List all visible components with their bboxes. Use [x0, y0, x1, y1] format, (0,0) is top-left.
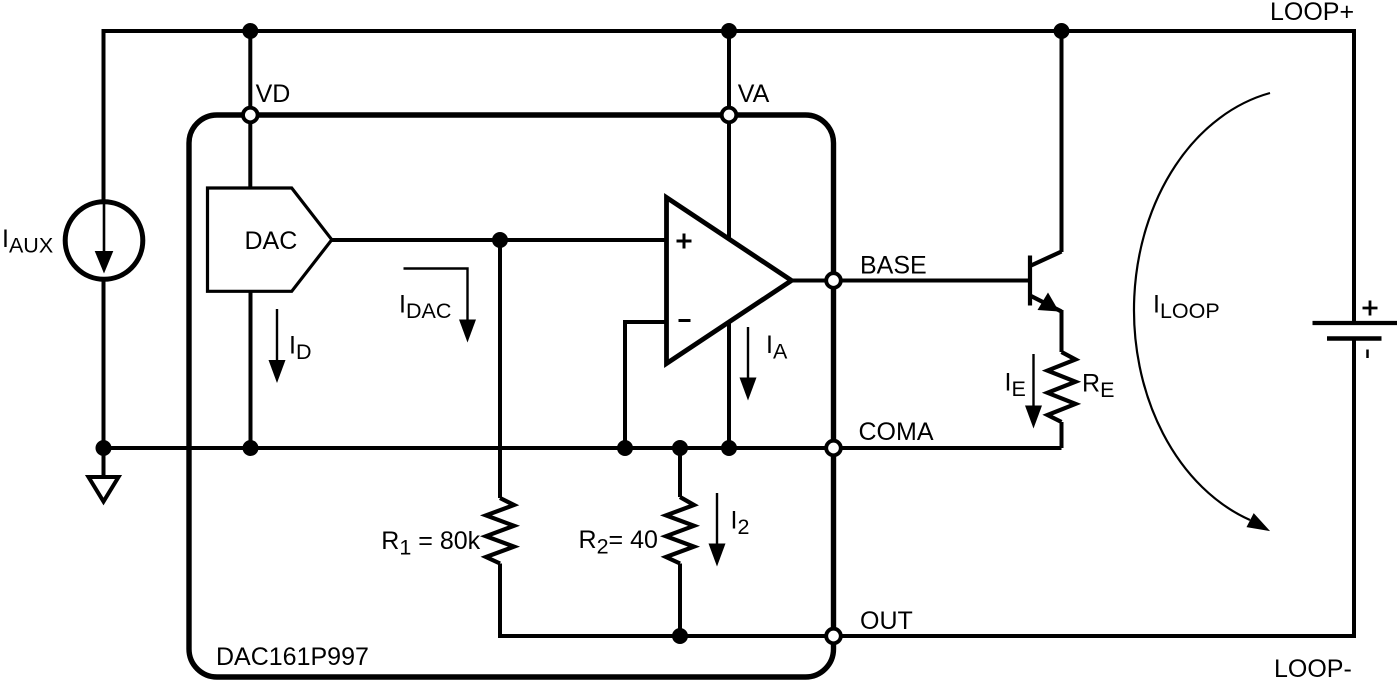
- svg-text:ILOOP: ILOOP: [1153, 291, 1220, 324]
- wire collector drop: [1060, 31, 1064, 252]
- svg-text:COMA: COMA: [859, 418, 934, 446]
- wire DAC output to op-amp plus input: [332, 238, 667, 242]
- svg-text:LOOP-: LOOP-: [1274, 655, 1352, 681]
- svg-text:IA: IA: [766, 331, 788, 364]
- wire R2 top lead: [678, 448, 682, 497]
- ground: [89, 477, 119, 502]
- indicator arrow IA: [747, 327, 749, 378]
- svg-text:ID: ID: [289, 332, 311, 365]
- svg-text:BASE: BASE: [860, 252, 927, 280]
- svg-text:OUT: OUT: [860, 607, 913, 635]
- svg-text:VA: VA: [738, 80, 770, 108]
- wire top rail LOOP+: [104, 31, 1355, 323]
- svg-text:RE: RE: [1082, 370, 1114, 403]
- wire DAC bottom ID branch: [249, 291, 253, 448]
- transistor Q1: [1028, 256, 1032, 306]
- indicator arrow IDAC: [404, 269, 468, 321]
- svg-text:IDAC: IDAC: [399, 291, 451, 324]
- wire bottom rail OUT to LOOP-: [834, 339, 1355, 637]
- current source IAUX: [65, 202, 143, 280]
- junction dots: [242, 23, 258, 39]
- wire BASE to transistor: [792, 279, 1031, 283]
- indicator arrow IE: [1032, 354, 1034, 406]
- wire emitter to RE: [1060, 310, 1064, 352]
- resistor R1: [486, 498, 514, 564]
- svg-text:IE: IE: [1005, 369, 1026, 402]
- resistor RE: [1048, 352, 1076, 422]
- svg-text:R1 = 80k: R1 = 80k: [381, 527, 480, 560]
- wire R1 branch top: [498, 240, 502, 498]
- pin VA: [722, 108, 737, 123]
- pin OUT: [826, 629, 841, 644]
- arrowhead ILOOP: [1247, 513, 1271, 531]
- indicator arrow I2: [716, 493, 718, 544]
- pin BASE: [826, 273, 841, 288]
- DAC block: [208, 188, 332, 291]
- pin VD: [243, 108, 258, 123]
- wire R1 bottom to OUT rail: [500, 564, 836, 637]
- svg-text:DAC161P997: DAC161P997: [216, 643, 369, 671]
- svg-text:R2= 40: R2= 40: [579, 526, 658, 559]
- wire IA drop from op-amp: [727, 321, 731, 448]
- svg-text:I2: I2: [731, 507, 750, 540]
- wire COMA rail: [104, 446, 1062, 450]
- op-amp plus sign: [677, 234, 692, 249]
- wire feedback minus input: [625, 322, 667, 448]
- indicator arrow ID: [276, 309, 278, 361]
- svg-text:LOOP+: LOOP+: [1270, 0, 1354, 26]
- wire VA drop: [727, 31, 731, 239]
- op-amp U1: [667, 198, 792, 364]
- pin COMA: [826, 441, 841, 456]
- arc ILOOP: [1134, 93, 1270, 520]
- op-amp minus sign: [679, 319, 691, 322]
- resistor R2: [666, 497, 694, 564]
- wire VD drop: [248, 31, 252, 188]
- wire RE bottom to COMA rail: [1060, 422, 1064, 448]
- battery V1: [1313, 321, 1397, 325]
- svg-text:DAC: DAC: [245, 227, 298, 255]
- chip DAC161P997 boundary: [189, 115, 834, 677]
- svg-text:IAUX: IAUX: [2, 225, 53, 258]
- wire IAUX bottom to ground node: [102, 281, 106, 448]
- wire R2 bottom lead: [678, 564, 682, 637]
- svg-text:VD: VD: [256, 80, 291, 108]
- wire ground stem: [102, 448, 106, 476]
